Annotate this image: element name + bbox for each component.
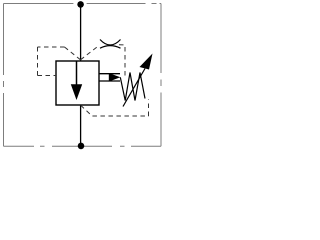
- spring: [120, 73, 145, 101]
- enclosure right edge: [160, 4, 162, 147]
- enclosure boundary (chain dashed rectangle): [4, 4, 162, 147]
- pilot line: orifice to spring chamber: [119, 45, 125, 77]
- wire: valve body to bottom port: [80, 105, 82, 146]
- node: bottom port junction dot: [78, 143, 85, 150]
- enclosure left edge: [3, 4, 5, 147]
- orifice (restriction): [100, 40, 121, 46]
- wire: top port to valve body: [80, 4, 82, 61]
- node: top port junction dot: [77, 1, 84, 8]
- pilot line: diagonal to orifice: [81, 46, 100, 60]
- enclosure bottom edge: [4, 145, 162, 147]
- pilot drain line: valve bottom to spring chamber: [81, 100, 149, 117]
- pilot line: left dashed loop to valve left port: [38, 47, 81, 76]
- flow-path arrow inside valve body: [76, 62, 78, 87]
- poppet triangle (points right into spring): [109, 73, 121, 82]
- adjustment arrow through spring: [123, 69, 145, 107]
- pilot seat port lines (valve right side): [99, 73, 120, 75]
- valve body square: [56, 61, 99, 105]
- enclosure top edge: [4, 3, 162, 5]
